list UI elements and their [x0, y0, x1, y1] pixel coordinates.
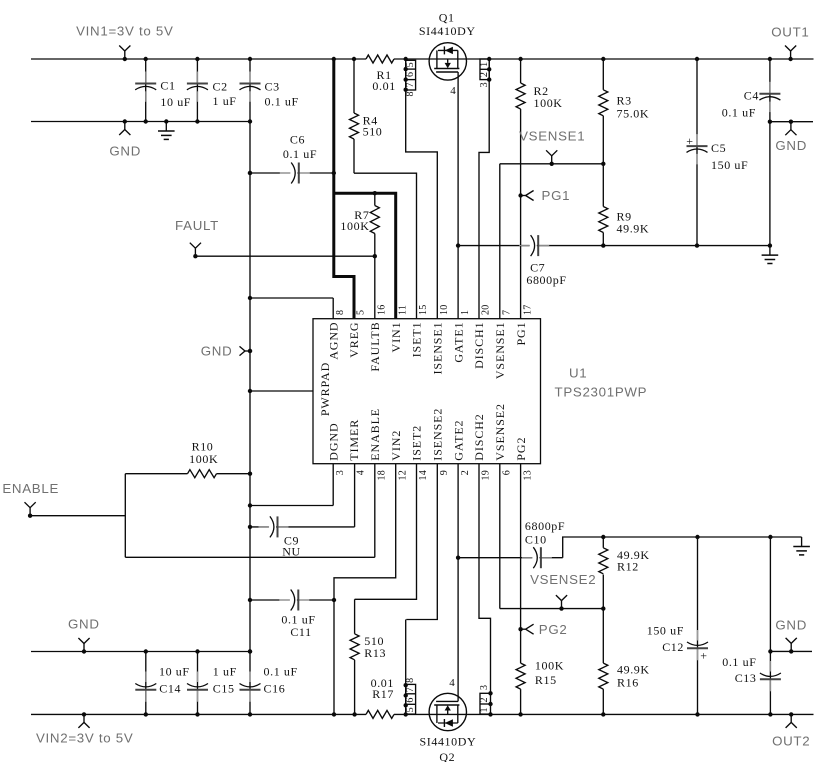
- svg-text:12: 12: [397, 470, 408, 481]
- svg-text:TIMER: TIMER: [347, 419, 361, 461]
- svg-text:GATE2: GATE2: [451, 420, 465, 461]
- svg-text:13: 13: [522, 470, 533, 481]
- svg-text:PG2: PG2: [539, 622, 568, 637]
- svg-text:16: 16: [377, 304, 388, 315]
- svg-text:100K: 100K: [534, 96, 563, 110]
- svg-text:ISENSE2: ISENSE2: [431, 408, 445, 461]
- svg-text:0.1 uF: 0.1 uF: [722, 655, 756, 669]
- svg-text:6: 6: [502, 470, 513, 475]
- svg-text:R12: R12: [617, 560, 639, 574]
- svg-text:C16: C16: [264, 682, 286, 696]
- svg-text:15: 15: [418, 304, 429, 315]
- svg-text:DGND: DGND: [326, 422, 340, 460]
- svg-text:VIN2: VIN2: [389, 430, 403, 461]
- svg-text:SI4410DY: SI4410DY: [419, 734, 476, 748]
- svg-text:0.1 uF: 0.1 uF: [265, 95, 299, 109]
- svg-text:100K: 100K: [340, 219, 369, 233]
- svg-text:1 uF: 1 uF: [213, 665, 237, 679]
- svg-text:0.1 uF: 0.1 uF: [264, 665, 298, 679]
- svg-text:VIN1: VIN1: [389, 322, 403, 353]
- svg-text:2: 2: [479, 697, 490, 702]
- svg-text:11: 11: [397, 305, 408, 315]
- svg-text:R13: R13: [364, 646, 386, 660]
- svg-text:2: 2: [460, 470, 471, 475]
- svg-text:VREG: VREG: [347, 322, 361, 358]
- svg-text:7: 7: [502, 310, 513, 315]
- svg-text:GND: GND: [201, 344, 233, 359]
- svg-text:DISCH2: DISCH2: [472, 413, 486, 460]
- svg-text:5: 5: [405, 62, 416, 67]
- svg-text:OUT2: OUT2: [772, 734, 810, 749]
- svg-text:R17: R17: [372, 687, 394, 701]
- svg-text:8: 8: [405, 678, 416, 683]
- svg-text:6800pF: 6800pF: [526, 273, 566, 287]
- svg-text:C12: C12: [662, 640, 684, 654]
- svg-text:14: 14: [418, 470, 429, 481]
- svg-text:9: 9: [439, 470, 450, 475]
- svg-text:6800pF: 6800pF: [525, 519, 565, 533]
- svg-text:GND: GND: [68, 617, 100, 632]
- svg-text:0.01: 0.01: [372, 79, 395, 93]
- svg-text:75.0K: 75.0K: [617, 106, 650, 120]
- svg-text:10 uF: 10 uF: [160, 95, 191, 109]
- svg-text:17: 17: [522, 304, 533, 315]
- svg-text:100K: 100K: [535, 659, 564, 673]
- svg-text:10 uF: 10 uF: [159, 665, 190, 679]
- svg-text:Q1: Q1: [439, 10, 455, 24]
- svg-text:1: 1: [479, 62, 490, 67]
- svg-text:ISET2: ISET2: [410, 425, 424, 461]
- svg-text:8: 8: [335, 310, 346, 315]
- svg-text:ENABLE: ENABLE: [2, 481, 59, 496]
- svg-text:19: 19: [481, 470, 492, 481]
- svg-text:C10: C10: [525, 533, 547, 547]
- svg-text:1: 1: [460, 310, 471, 315]
- svg-text:ISENSE1: ISENSE1: [431, 322, 445, 375]
- svg-text:C6: C6: [290, 133, 305, 147]
- svg-text:3: 3: [335, 470, 346, 475]
- svg-text:VSENSE2: VSENSE2: [493, 403, 507, 461]
- svg-text:0.1 uF: 0.1 uF: [722, 105, 756, 119]
- svg-text:7: 7: [405, 687, 416, 692]
- svg-text:R3: R3: [617, 93, 632, 107]
- svg-text:+: +: [700, 648, 707, 662]
- svg-text:NU: NU: [282, 544, 301, 558]
- svg-text:VIN1=3V to 5V: VIN1=3V to 5V: [76, 24, 173, 39]
- svg-text:+: +: [686, 134, 693, 148]
- svg-text:C14: C14: [159, 682, 181, 696]
- svg-text:100K: 100K: [189, 452, 218, 466]
- svg-text:49.9K: 49.9K: [617, 222, 650, 236]
- svg-text:GND: GND: [775, 138, 807, 153]
- svg-text:10: 10: [439, 304, 450, 315]
- svg-text:4: 4: [450, 85, 456, 97]
- svg-text:OUT1: OUT1: [771, 24, 809, 39]
- svg-text:C15: C15: [213, 682, 235, 696]
- svg-text:150 uF: 150 uF: [711, 158, 748, 172]
- svg-text:510: 510: [363, 125, 383, 139]
- svg-text:C4: C4: [744, 88, 759, 102]
- svg-text:20: 20: [481, 304, 492, 315]
- svg-text:R16: R16: [617, 676, 639, 690]
- svg-text:AGND: AGND: [326, 322, 340, 360]
- svg-text:2: 2: [479, 72, 490, 77]
- svg-text:SI4410DY: SI4410DY: [419, 24, 476, 38]
- svg-text:1 uF: 1 uF: [213, 94, 237, 108]
- svg-text:PWRPAD: PWRPAD: [318, 362, 332, 416]
- svg-text:1: 1: [479, 707, 490, 712]
- svg-text:PG2: PG2: [514, 437, 528, 461]
- svg-text:0.1 uF: 0.1 uF: [283, 147, 317, 161]
- svg-text:VSENSE1: VSENSE1: [493, 322, 507, 380]
- svg-text:5: 5: [356, 310, 367, 315]
- svg-text:FAULT: FAULT: [175, 218, 219, 233]
- svg-text:6: 6: [405, 72, 416, 77]
- svg-text:VIN2=3V to 5V: VIN2=3V to 5V: [36, 730, 133, 745]
- svg-text:FAULTB: FAULTB: [368, 322, 382, 372]
- svg-text:C5: C5: [711, 141, 726, 155]
- svg-text:3: 3: [479, 82, 490, 87]
- svg-text:ISET1: ISET1: [410, 322, 424, 358]
- svg-text:150 uF: 150 uF: [647, 624, 684, 638]
- svg-text:C11: C11: [290, 625, 311, 639]
- svg-text:VSENSE1: VSENSE1: [519, 128, 585, 143]
- svg-text:GATE1: GATE1: [451, 322, 465, 363]
- svg-text:PG1: PG1: [514, 322, 528, 346]
- svg-text:5: 5: [405, 707, 416, 712]
- svg-text:7: 7: [405, 82, 416, 87]
- svg-text:VSENSE2: VSENSE2: [530, 572, 596, 587]
- svg-text:U1: U1: [569, 366, 587, 381]
- svg-text:3: 3: [479, 685, 490, 690]
- svg-text:18: 18: [377, 470, 388, 481]
- svg-text:C13: C13: [735, 671, 757, 685]
- svg-text:ENABLE: ENABLE: [368, 408, 382, 461]
- svg-text:R15: R15: [535, 673, 557, 687]
- svg-text:GND: GND: [775, 618, 807, 633]
- svg-text:GND: GND: [109, 144, 141, 159]
- svg-text:4: 4: [449, 677, 455, 689]
- svg-text:DISCH1: DISCH1: [472, 322, 486, 369]
- svg-text:Q2: Q2: [439, 750, 455, 762]
- svg-text:C3: C3: [265, 80, 280, 94]
- svg-text:4: 4: [356, 470, 367, 475]
- svg-text:C2: C2: [213, 80, 228, 94]
- svg-text:8: 8: [405, 91, 416, 96]
- svg-text:TPS2301PWP: TPS2301PWP: [555, 385, 648, 400]
- svg-text:C1: C1: [160, 79, 175, 93]
- svg-text:49.9K: 49.9K: [617, 663, 650, 677]
- svg-text:6: 6: [405, 697, 416, 702]
- svg-text:PG1: PG1: [542, 188, 571, 203]
